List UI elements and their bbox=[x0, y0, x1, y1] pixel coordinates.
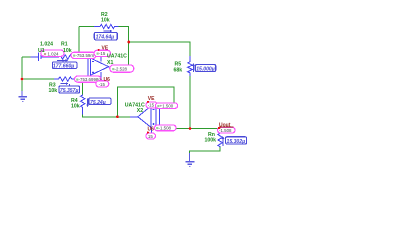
svg-text:■+1.500: ■+1.500 bbox=[157, 103, 174, 108]
wire R4 top to input node bbox=[82, 79, 84, 95]
svg-text:UA741C: UA741C bbox=[107, 53, 127, 59]
wire X1 output bbox=[114, 66, 129, 68]
pin dot at Uout bbox=[218, 127, 220, 129]
probe oval X1 non-inverting input bbox=[75, 76, 103, 82]
resistor R5 vertical bbox=[188, 56, 193, 76]
pin dot at X2 bottom bbox=[147, 132, 149, 134]
svg-text:10k: 10k bbox=[71, 104, 80, 110]
ammeter box R5 current bbox=[195, 65, 215, 73]
probe oval X1 bottom supply 15 bbox=[96, 81, 109, 87]
svg-text:U6: U6 bbox=[104, 77, 111, 83]
svg-text:■ 1.024: ■ 1.024 bbox=[44, 51, 59, 56]
wire R3 row from rail to R3 bbox=[22, 78, 54, 80]
resistor R3 bbox=[54, 77, 88, 81]
ammeter arrow R1 bbox=[57, 59, 68, 62]
svg-text:15: 15 bbox=[148, 134, 153, 139]
wire Rn bottom to ground bbox=[190, 147, 221, 153]
ammeter arrow Rn bbox=[222, 136, 225, 146]
svg-text:■-15: ■-15 bbox=[96, 51, 106, 56]
ammeter box R1 current bbox=[52, 62, 77, 70]
svg-text:Uout: Uout bbox=[219, 122, 231, 128]
svg-text:X2: X2 bbox=[137, 108, 143, 114]
svg-text:15.000µ: 15.000µ bbox=[196, 67, 215, 73]
voltage source U1 bbox=[31, 53, 47, 62]
svg-text:U6: U6 bbox=[148, 127, 155, 133]
wire R2 top row right and down to output node bbox=[115, 27, 129, 68]
probe oval X2 top supply -15 bbox=[146, 102, 158, 108]
probe oval Uout bbox=[218, 127, 236, 133]
svg-text:174.64µ: 174.64µ bbox=[96, 35, 115, 41]
probe oval X2 inverting input +1.500 bbox=[155, 103, 177, 109]
wire R4 bottom to X2 input bbox=[83, 115, 130, 117]
resistor R1 bbox=[46, 55, 88, 59]
ammeter arrow R2 bbox=[104, 30, 113, 33]
svg-text:177.660µ: 177.660µ bbox=[53, 64, 74, 70]
svg-text:100k: 100k bbox=[205, 138, 217, 144]
svg-text:-15: -15 bbox=[148, 103, 155, 108]
ammeter arrow R3 bbox=[61, 82, 70, 86]
ammeter box R3 current bbox=[59, 86, 80, 94]
svg-text:68k: 68k bbox=[174, 68, 183, 74]
ammeter arrow R5 bbox=[192, 63, 195, 72]
ammeter arrow R4 bbox=[86, 98, 89, 107]
junction at feedback node bbox=[127, 41, 130, 44]
svg-text:10k: 10k bbox=[49, 88, 58, 94]
ground right bbox=[185, 153, 194, 167]
wire feedback left vertical bbox=[78, 27, 80, 58]
probe oval X2 output -1.508 bbox=[155, 125, 177, 131]
svg-text:-1.508: -1.508 bbox=[219, 128, 232, 133]
junction at left rail R3 row bbox=[21, 78, 24, 81]
svg-text:■-1.508: ■-1.508 bbox=[156, 126, 172, 131]
junction at X2 input bbox=[116, 115, 119, 118]
junction at output row R5 bbox=[189, 127, 192, 130]
svg-text:10k: 10k bbox=[63, 48, 72, 54]
svg-text:U1: U1 bbox=[38, 48, 45, 54]
resistor R4 vertical bbox=[81, 95, 85, 115]
wire left ground rail bbox=[21, 57, 23, 91]
probe oval X1 output bbox=[110, 65, 134, 72]
probe oval X1 inverting input bbox=[71, 52, 96, 58]
svg-text:X1: X1 bbox=[107, 60, 113, 66]
svg-text:■-2.528: ■-2.528 bbox=[112, 66, 128, 71]
wire R2 top row left bbox=[79, 26, 98, 28]
wire from node to R5 top bbox=[129, 42, 190, 56]
probe oval X1 top supply -15 bbox=[94, 50, 111, 56]
wire R5 bottom down to output row bbox=[189, 76, 191, 129]
resistor R2 bbox=[94, 24, 119, 28]
wire input top from left rail to source U1 bbox=[22, 56, 31, 58]
svg-text:15.302µ: 15.302µ bbox=[227, 139, 246, 145]
svg-text:VE: VE bbox=[102, 45, 109, 51]
ammeter box Rn current bbox=[226, 137, 247, 145]
ammeter box R2 current bbox=[94, 32, 117, 40]
wire X2 output row to Rn bbox=[159, 128, 220, 130]
wire X2 feedback loop bbox=[117, 87, 174, 117]
ground left bbox=[18, 91, 27, 101]
svg-text:VE: VE bbox=[148, 96, 155, 102]
svg-text:10k: 10k bbox=[101, 18, 110, 24]
probe oval U1 voltage bbox=[41, 50, 64, 56]
resistor Rn vertical bbox=[218, 131, 223, 148]
svg-text:75.24µ: 75.24µ bbox=[90, 100, 106, 106]
probe oval X2 bottom supply 15 bbox=[146, 133, 156, 139]
op-amp X1 bbox=[88, 54, 114, 83]
svg-text:R1: R1 bbox=[61, 42, 68, 48]
op-amp X2 mirrored bbox=[130, 106, 160, 133]
ammeter box R4 current bbox=[89, 98, 111, 106]
svg-text:1.024: 1.024 bbox=[40, 42, 53, 48]
svg-text:75.357µ: 75.357µ bbox=[60, 88, 79, 94]
svg-text:■-753.59m: ■-753.59m bbox=[73, 53, 95, 58]
